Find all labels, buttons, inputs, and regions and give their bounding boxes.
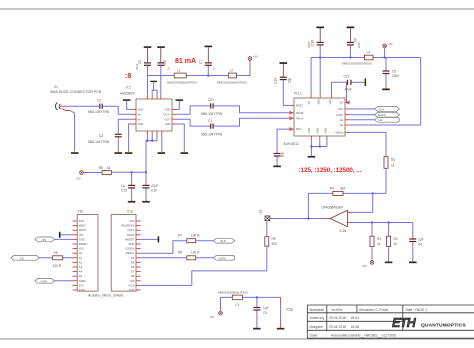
title block row Datei xyxy=(310,333,397,337)
svg-text:29.04.2018: 29.04.2018 xyxy=(329,316,346,320)
junction dots PLL ground xyxy=(310,146,320,148)
svg-text:MXout: MXout xyxy=(336,131,344,135)
svg-text:10p: 10p xyxy=(281,152,285,158)
junction dots rail y57 xyxy=(319,57,385,59)
ground (C4) xyxy=(409,262,417,264)
wire feedback to op-amp inverting input xyxy=(352,193,373,212)
supply bar (C13) xyxy=(280,62,288,64)
svg-text:GND: GND xyxy=(41,279,49,283)
net flag GND (X1b) xyxy=(35,278,55,283)
ETH logo xyxy=(392,316,466,330)
svg-text:IC1: IC1 xyxy=(126,86,131,90)
wire IC1 OUT+ to C21 xyxy=(177,106,211,114)
svg-text:IC2p: IC2p xyxy=(287,308,294,312)
svg-text:29.04.2018: 29.04.2018 xyxy=(329,325,346,329)
svg-text:HMC862A: HMC862A xyxy=(120,92,136,96)
svg-text:Massstab: Massstab xyxy=(310,308,325,312)
IC1 left pin stubs xyxy=(132,109,137,124)
svg-text:DATA: DATA xyxy=(378,113,386,117)
IC1 right pin stubs xyxy=(172,109,177,124)
svg-text:QUANTUMOPTICS: QUANTUMOPTICS xyxy=(421,323,466,329)
svg-text:MMZ1005S601HT000: MMZ1005S601HT000 xyxy=(218,291,248,295)
svg-text:47µF: 47µF xyxy=(151,184,158,188)
svg-text:DATA: DATA xyxy=(336,113,343,117)
svg-text:A0: A0 xyxy=(79,251,83,255)
svg-text:R4: R4 xyxy=(330,187,334,191)
ground (C9) xyxy=(253,328,261,330)
svg-text:1n: 1n xyxy=(212,66,216,70)
wire X1a RESET to no-connect bar xyxy=(141,238,158,240)
wire PLL DATA to flag xyxy=(350,114,375,116)
no-connect bar (X1a RESET) xyxy=(158,236,160,242)
svg-text:C12: C12 xyxy=(344,75,350,79)
capacitor C10 xyxy=(143,172,159,201)
capacitor C9 xyxy=(253,297,268,327)
svg-text:GND: GND xyxy=(324,128,328,134)
svg-text:C21: C21 xyxy=(208,98,214,102)
svg-text:560L104YTRN: 560L104YTRN xyxy=(201,133,223,137)
svg-text:SCK: SCK xyxy=(79,219,85,223)
svg-text:L1: L1 xyxy=(177,69,181,73)
wire PLL CLK to flag xyxy=(350,108,375,110)
wire R7 to CLK flag xyxy=(196,240,214,242)
svg-text::125, :1250, :12500, ...: :125, :1250, :12500, ... xyxy=(299,167,362,174)
svg-text:X1b: X1b xyxy=(78,210,84,214)
wire top supply rail xyxy=(148,61,251,95)
supply circle after L2 xyxy=(248,55,258,61)
svg-text:560L104YTRN: 560L104YTRN xyxy=(88,110,110,114)
capacitor C7 xyxy=(199,47,216,75)
svg-text:SMA EDGE CONNECTOR PCB: SMA EDGE CONNECTOR PCB xyxy=(50,90,102,94)
svg-text:R3: R3 xyxy=(391,158,395,162)
svg-text:47µF: 47µF xyxy=(135,63,139,70)
wire top rail y57 with corner to PLL pin1 xyxy=(311,58,421,94)
op-amp IC2a OPA356AIDBV xyxy=(322,205,353,233)
wire PLL CE to right loop xyxy=(350,58,421,126)
svg-text::8: :8 xyxy=(125,73,131,80)
svg-text:C1: C1 xyxy=(208,119,212,123)
PLL right pin stubs xyxy=(345,101,350,132)
resistor R2 xyxy=(387,223,398,262)
IC1 bottom pin stubs xyxy=(147,131,161,135)
wire op-amp non-inv input to C4 xyxy=(352,222,413,224)
net flag +5V (X1b) xyxy=(35,237,55,242)
wire R6 to supply circle xyxy=(84,172,103,174)
wire SMA center to C2 xyxy=(66,105,99,107)
wire C6 column down to IC1 pin xyxy=(160,76,162,95)
net flag LE xyxy=(375,117,400,122)
svg-text:R2: R2 xyxy=(394,237,398,241)
wire C2 to IC1 IN+ xyxy=(103,106,132,114)
op-amp power IC2p xyxy=(281,297,294,327)
svg-text:D6: D6 xyxy=(131,265,135,269)
capacitor C2 xyxy=(88,99,110,114)
svg-text:OUT-: OUT- xyxy=(164,117,170,121)
supply bar (C6a) xyxy=(157,46,165,48)
capacitor C5 xyxy=(135,48,151,76)
junction dot output node xyxy=(307,218,309,220)
svg-text:A5: A5 xyxy=(79,274,83,278)
title block row Ausgabe xyxy=(310,325,360,329)
svg-text:RFinA: RFinA xyxy=(296,116,303,120)
wire R4 to output node xyxy=(308,193,332,218)
wire IC1 lower-right GND to ground xyxy=(177,124,185,152)
svg-text:CLK: CLK xyxy=(338,107,343,111)
svg-text:CLK: CLK xyxy=(379,107,385,111)
svg-text:GND: GND xyxy=(138,108,144,112)
title block row Massstab xyxy=(310,308,428,312)
svg-text:VIN: VIN xyxy=(79,233,84,237)
ground bar (IC1 left GND) xyxy=(123,99,131,101)
IC1 HMC862A box xyxy=(120,86,172,132)
resistor R3 xyxy=(384,157,395,169)
connector X1 SMA symbol xyxy=(55,103,70,111)
svg-text:3k3: 3k3 xyxy=(340,187,345,191)
svg-text:R7: R7 xyxy=(178,233,182,237)
svg-text:R8: R8 xyxy=(178,250,182,254)
svg-text:CP: CP xyxy=(339,101,343,105)
svg-text:GND: GND xyxy=(79,237,85,241)
ground (C15) xyxy=(128,201,136,203)
ground (IC1 lower-right) xyxy=(181,152,189,154)
wire PLL LE to flag xyxy=(350,119,375,121)
title block row Aenderung xyxy=(310,316,360,320)
svg-text:GND: GND xyxy=(165,108,171,112)
svg-text:+5V: +5V xyxy=(76,177,81,181)
wire X1a D4 to R8 xyxy=(141,257,187,259)
test pad bar after C12 xyxy=(365,78,367,86)
capacitor C12 xyxy=(344,75,365,92)
svg-text:10p: 10p xyxy=(288,77,292,83)
page bottom edge line xyxy=(0,338,474,339)
wire X1b +5V flag xyxy=(55,238,73,240)
resistor R7 xyxy=(178,233,200,242)
svg-text:+5V: +5V xyxy=(388,42,393,46)
capacitor C6a xyxy=(158,48,171,76)
svg-text:C3: C3 xyxy=(99,134,103,138)
wire R6 to C10 column xyxy=(111,171,146,173)
svg-text:A2: A2 xyxy=(79,260,83,264)
svg-text:1µ: 1µ xyxy=(121,184,125,188)
net flag CLK xyxy=(375,107,400,112)
ground (C3) xyxy=(115,152,123,154)
wire PLL MXout to R3 xyxy=(350,132,386,156)
PLL left pin stubs with arrows xyxy=(289,105,294,130)
svg-text:560L104YTRN: 560L104YTRN xyxy=(88,140,110,144)
net flag LE (X1b) xyxy=(11,255,40,260)
svg-text:D1TX: D1TX xyxy=(128,228,135,232)
svg-text:C13: C13 xyxy=(274,78,278,84)
wire R5 to LE flag xyxy=(40,257,53,259)
net flag DATA xyxy=(375,112,400,117)
net flag CLK (X1a) xyxy=(213,238,235,243)
svg-text:D5: D5 xyxy=(131,260,135,264)
wire R3 to R4 line xyxy=(343,168,386,193)
svg-text:C6: C6 xyxy=(163,60,167,64)
junction dots IC1 bottom xyxy=(146,140,153,142)
wire IC1 left GND to AGND bar xyxy=(127,101,132,110)
wire PLL RFin pin4 to C14 xyxy=(277,129,289,153)
svg-text:MOSI: MOSI xyxy=(79,228,86,232)
svg-text:IC2a: IC2a xyxy=(340,229,347,233)
svg-text:VRF: VRF xyxy=(328,99,332,105)
X1b left pin stubs xyxy=(73,221,78,290)
svg-text:ETH: ETH xyxy=(392,316,417,330)
capacitor C3 xyxy=(88,134,122,152)
svg-text:C8: C8 xyxy=(392,69,396,73)
net flag DATA (X1a) xyxy=(213,255,235,260)
svg-text:C7: C7 xyxy=(199,60,203,64)
ground (R2) xyxy=(385,262,393,264)
junction dot feedback xyxy=(372,192,374,194)
ground (C8) xyxy=(382,89,390,91)
wire IC1 bottom pins junction xyxy=(146,135,157,172)
title block frame xyxy=(307,305,474,338)
PLL1 ADF41513 box xyxy=(284,91,346,146)
svg-text:GND: GND xyxy=(128,242,134,246)
svg-text:A4: A4 xyxy=(79,270,83,274)
svg-text:Alexander C. Frank: Alexander C. Frank xyxy=(359,308,389,312)
junction dots lower input wire xyxy=(371,222,390,224)
ground (SMA shield) xyxy=(71,152,79,154)
svg-text:+5V: +5V xyxy=(41,238,46,242)
svg-text:GND: GND xyxy=(316,128,320,134)
svg-text:R1: R1 xyxy=(377,237,381,241)
ground (IC1 lower-left) xyxy=(125,152,133,154)
wire C1 to PLL RFinA xyxy=(214,118,290,126)
svg-text:D2SDA: D2SDA xyxy=(125,247,134,251)
svg-text:RFin: RFin xyxy=(296,127,302,131)
connector X1b box xyxy=(77,210,98,293)
ground (IC2p) xyxy=(277,328,285,330)
ground (C10) xyxy=(142,201,150,203)
svg-text:+5V: +5V xyxy=(253,55,258,59)
wire X1b A0 to R5 xyxy=(63,257,73,259)
supply circle after L4 xyxy=(383,42,393,58)
svg-text:PLL1: PLL1 xyxy=(294,91,302,95)
svg-text:18:48: 18:48 xyxy=(351,325,360,329)
svg-text:D8: D8 xyxy=(131,274,135,278)
wire SMA shield to ground xyxy=(70,111,75,152)
no-connect bar (X1b GND) xyxy=(59,232,61,238)
svg-text:100 R: 100 R xyxy=(53,264,62,268)
wire X1a D3SCL to R7 xyxy=(141,241,187,254)
svg-text:C9: C9 xyxy=(263,311,267,315)
wire PLL RSET to cap column xyxy=(283,80,289,105)
ground (IC1 bottom) xyxy=(158,152,166,154)
resistor R1 xyxy=(370,223,381,261)
capacitor C4 xyxy=(409,223,423,262)
junction dots R6 line xyxy=(131,171,147,173)
svg-text:AREF: AREF xyxy=(79,279,87,283)
connector X2 pad xyxy=(259,209,273,220)
svg-text:3V3: 3V3 xyxy=(79,283,84,287)
svg-text:R6: R6 xyxy=(99,166,103,170)
svg-text:X2: X2 xyxy=(259,209,263,213)
connector X1a box xyxy=(111,210,136,293)
resistor R8 xyxy=(178,250,200,259)
svg-text:RSET: RSET xyxy=(296,104,303,108)
wire op-amp output to X2 xyxy=(273,218,326,220)
svg-text:Ausgabe: Ausgabe xyxy=(310,325,323,329)
svg-text:1k: 1k xyxy=(391,164,395,168)
svg-text:+5V: +5V xyxy=(210,315,215,319)
supply circle R6 xyxy=(76,171,83,181)
ground (PLL) xyxy=(308,156,316,158)
svg-text:Änderung: Änderung xyxy=(310,316,325,320)
ferrite L4 xyxy=(342,51,373,66)
ferrite L1 xyxy=(167,69,197,85)
svg-text:81 mA: 81 mA xyxy=(175,58,196,65)
capacitor C1 xyxy=(201,119,223,137)
svg-text:LE: LE xyxy=(379,118,383,122)
svg-text:D3SCL: D3SCL xyxy=(126,251,135,255)
svg-text:MISO: MISO xyxy=(79,224,86,228)
supply bar (C7) xyxy=(205,46,213,48)
supply bar (C16) xyxy=(316,27,324,29)
svg-text:CLK: CLK xyxy=(220,239,226,243)
svg-text:L3: L3 xyxy=(236,303,240,307)
svg-text:100: 100 xyxy=(272,242,278,246)
svg-text:VP: VP xyxy=(307,101,311,105)
svg-text:C10: C10 xyxy=(151,189,157,193)
svg-text:C6: C6 xyxy=(354,38,358,42)
svg-text:D0RX: D0RX xyxy=(127,233,134,237)
wire PLL CP up to C12 xyxy=(346,82,348,102)
svg-text:RFinB: RFinB xyxy=(296,111,303,115)
svg-text:ArduinoMicroShield__HMC862__V1: ArduinoMicroShield__HMC862__V1173001 xyxy=(331,333,397,337)
svg-text:Datei: Datei xyxy=(310,333,318,337)
svg-text:IO13: IO13 xyxy=(79,288,85,292)
svg-text:D4: D4 xyxy=(131,256,135,260)
resistor R5 xyxy=(53,251,63,268)
IC1 top pin stubs xyxy=(147,95,160,99)
svg-text:C5: C5 xyxy=(138,60,142,64)
svg-text:C2: C2 xyxy=(97,99,101,103)
svg-text:1µF: 1µF xyxy=(263,306,269,310)
page top edge line xyxy=(0,8,474,9)
wire X1b GND to no-connect bar xyxy=(60,234,73,236)
svg-text:GND: GND xyxy=(138,122,144,126)
svg-text:MMZ1005S601HT000: MMZ1005S601HT000 xyxy=(342,62,372,66)
svg-text:RXLED/SS: RXLED/SS xyxy=(121,224,135,228)
svg-text:IN-: IN- xyxy=(138,117,142,121)
supply circle under R1 xyxy=(362,261,374,269)
wire X1b AREF flag xyxy=(55,280,73,282)
svg-text:C15: C15 xyxy=(121,189,127,193)
svg-text:X1: X1 xyxy=(54,85,58,89)
ground bar (IC1 right GND) xyxy=(176,99,184,101)
svg-text:IO10: IO10 xyxy=(129,283,135,287)
svg-text:MMZ1005S601HT000: MMZ1005S601HT000 xyxy=(217,80,247,84)
svg-text:1k: 1k xyxy=(377,242,381,246)
svg-text:C4: C4 xyxy=(418,243,422,247)
svg-text:RESET: RESET xyxy=(79,242,88,246)
wire PLL top pin3 to C12 xyxy=(332,82,347,93)
wire IC1 lower-left GND to ground xyxy=(129,124,132,152)
capacitor C16 column xyxy=(307,28,324,93)
svg-text:IN+: IN+ xyxy=(138,113,143,117)
svg-text:VDD: VDD xyxy=(317,99,321,105)
wire R9 down to X1a pin15 xyxy=(141,246,267,285)
junction dot rail C7 xyxy=(207,75,209,77)
capacitor C21 xyxy=(201,98,223,116)
svg-text:IO11: IO11 xyxy=(129,288,135,292)
wire IC1 OUT- to C1 xyxy=(177,119,211,126)
PLL bottom pin stubs xyxy=(311,136,327,140)
svg-text:CE: CE xyxy=(339,123,343,127)
svg-text:1n: 1n xyxy=(167,66,171,70)
svg-text:X1a: X1a xyxy=(127,210,133,214)
wire PLL bottom GND pins xyxy=(311,140,327,156)
svg-text:100 R: 100 R xyxy=(191,233,200,237)
svg-text:100 R: 100 R xyxy=(191,250,200,254)
svg-text:RESET: RESET xyxy=(125,237,134,241)
svg-text:+5V: +5V xyxy=(362,264,367,268)
svg-text:560L104YTRN: 560L104YTRN xyxy=(201,112,223,116)
ground (C14) xyxy=(273,166,281,168)
svg-text:IO9: IO9 xyxy=(130,279,135,283)
svg-text:MMZ1005S601HT000: MMZ1005S601HT000 xyxy=(167,80,197,84)
svg-text:R9: R9 xyxy=(272,237,276,241)
svg-text:100n: 100n xyxy=(392,74,399,78)
supply circle L3 xyxy=(210,311,223,319)
svg-text:100n: 100n xyxy=(357,41,361,48)
capacitor C6 column xyxy=(347,28,361,57)
wire C21 to PLL RFinB xyxy=(214,106,290,113)
ferrite L2 xyxy=(217,69,247,85)
resistor R6 xyxy=(99,166,111,175)
svg-text:L2: L2 xyxy=(230,69,234,73)
svg-text:OUT+: OUT+ xyxy=(164,113,171,117)
wire IC1 right GND to AGND bar xyxy=(177,101,180,110)
svg-text:GND: GND xyxy=(307,128,311,134)
X1a right pin stubs xyxy=(136,221,141,290)
svg-text:OPA356AIDBV: OPA356AIDBV xyxy=(322,205,344,209)
svg-text:1k: 1k xyxy=(394,242,398,246)
ferrite L3 xyxy=(218,291,248,307)
svg-text:47µF: 47µF xyxy=(307,41,311,48)
svg-text:R5: R5 xyxy=(54,251,58,255)
capacitor C8 xyxy=(383,58,400,89)
svg-text:ADF41513: ADF41513 xyxy=(284,142,299,146)
wire IC1 bottom GND pin4 to ground xyxy=(161,135,163,152)
svg-text:Arduino_Micro_Shield: Arduino_Micro_Shield xyxy=(88,294,123,298)
junction dot C9 xyxy=(256,296,258,298)
wire IC1 IN- to C3 xyxy=(118,119,131,133)
svg-text:%100%: %100% xyxy=(331,308,343,312)
svg-text:1µF: 1µF xyxy=(418,238,424,242)
capacitor C15 xyxy=(121,172,135,201)
svg-text:LE: LE xyxy=(340,118,343,122)
PLL top pin stubs xyxy=(311,94,331,98)
wire R8 to DATA flag xyxy=(196,257,214,259)
svg-text:1k: 1k xyxy=(107,166,111,170)
wire L3 supply rail xyxy=(221,297,281,311)
resistor R4 xyxy=(330,187,345,196)
svg-text:D7: D7 xyxy=(131,270,135,274)
svg-text:Blatt : PAGE 1: Blatt : PAGE 1 xyxy=(406,308,428,312)
svg-text:47pF: 47pF xyxy=(345,88,352,92)
svg-text:LE: LE xyxy=(20,256,24,260)
ground bar over IC1 middle pins xyxy=(150,81,157,95)
connector X1 SMA label xyxy=(50,85,102,94)
svg-text:L4: L4 xyxy=(367,51,371,55)
supply bar (C5) xyxy=(144,46,152,48)
capacitor C14 xyxy=(274,152,285,166)
capacitor C13 on RSET xyxy=(274,64,292,84)
svg-text:DATA: DATA xyxy=(219,256,227,260)
